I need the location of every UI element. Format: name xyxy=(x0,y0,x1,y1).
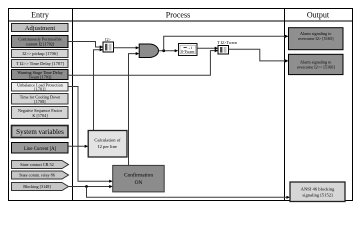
wire Blocking branch down along bottom to ANSI 46 block xyxy=(87,187,288,198)
comparator block T I2-Twarn xyxy=(217,40,238,54)
svg-text:T I2>Twarn: T I2>Twarn xyxy=(217,40,238,45)
svg-text:Confirmation: Confirmation xyxy=(124,172,153,179)
svg-text:ON: ON xyxy=(135,180,143,186)
svg-text:T I2>> Time Delay [1707]: T I2>> Time Delay [1707] xyxy=(16,61,64,66)
svg-text:[1708]: [1708] xyxy=(34,99,46,104)
wire from Continuously Permissible current to comparator I2 input 1 xyxy=(68,42,101,48)
svg-text:State comm. relay 86: State comm. relay 86 xyxy=(19,173,55,178)
block Adjustment xyxy=(12,24,69,33)
block Confirmation ON xyxy=(113,165,165,192)
wire timer output to comparator T I2-Twarn xyxy=(197,47,216,49)
block Time for Cooling Down (1708) xyxy=(12,94,69,105)
svg-text:Blocking [3148]: Blocking [3148] xyxy=(23,184,51,189)
svg-text:Adjustment: Adjustment xyxy=(25,25,56,32)
column divider Process/Output xyxy=(284,9,286,201)
wire Warning Stage Time Delay Twarn to comparator input 2 xyxy=(68,51,216,76)
wire AND output to junction and timer input xyxy=(159,50,176,52)
svg-text:[1701]: [1701] xyxy=(34,87,46,92)
block Calculation of I2 per line xyxy=(88,131,127,158)
wire Line Current to Calculation block xyxy=(68,145,86,147)
input tag Blocking (3148) xyxy=(12,183,69,191)
wire comparator T output to Alarm I2-greater output box 2 xyxy=(229,49,286,61)
block Line Current [A] xyxy=(12,143,69,154)
svg-text:I2>> pickup [1706]: I2>> pickup [1706] xyxy=(22,51,58,56)
block Unbalance Load Protection (1701) xyxy=(12,83,69,92)
svg-text:Entry: Entry xyxy=(31,11,49,20)
svg-text:K [1704]: K [1704] xyxy=(32,113,48,118)
svg-text:signaling [5152]: signaling [5152] xyxy=(302,193,333,198)
block I2 pickup (1706) xyxy=(12,50,69,58)
wire Unbalance Load Protection down to Confirmation input 1 xyxy=(68,87,110,182)
svg-text:Twarn [1703]: Twarn [1703] xyxy=(29,75,52,80)
block T I2 Time Delay (1707) xyxy=(12,60,69,68)
svg-text:Process: Process xyxy=(166,11,190,20)
svg-text:overcome I2> [5165]: overcome I2> [5165] xyxy=(298,36,334,41)
svg-text:Line Current [A]: Line Current [A] xyxy=(24,147,57,152)
svg-text:0-Twarn: 0-Twarn xyxy=(181,49,195,54)
junction node at AND output xyxy=(162,49,165,52)
wire comparator output to AND gate input 1 xyxy=(114,47,137,49)
svg-text:current I2 [1702]: current I2 [1702] xyxy=(26,42,55,47)
svg-text:ANSI 46 blocking: ANSI 46 blocking xyxy=(301,187,335,192)
AND gate xyxy=(139,44,158,58)
wire Confirmation ON up to AND gate input 2 xyxy=(129,54,137,166)
block Negative Sequence Factor K (1704) xyxy=(12,107,69,119)
svg-text:Calculation of: Calculation of xyxy=(94,138,121,143)
block Warning Stage Time Delay Twarn (1703) xyxy=(12,70,69,80)
wire junction up and right to Alarm I2 output box xyxy=(164,36,286,50)
block System variables xyxy=(12,126,69,138)
svg-text:System variables: System variables xyxy=(16,128,64,136)
input tag State comm. relay 86 xyxy=(12,171,69,179)
wire from Calculation of I2 to comparator I2 input 2 xyxy=(94,50,101,131)
svg-text:State contact CB 52: State contact CB 52 xyxy=(20,162,53,167)
timer block t 0-Twarn xyxy=(179,44,198,56)
svg-text:I2 per line: I2 per line xyxy=(98,144,117,149)
header row divider line xyxy=(9,20,353,22)
comparator block I2 threshold xyxy=(103,37,114,52)
input tag State contact CB 52 xyxy=(12,161,69,169)
junction node on Blocking wire xyxy=(85,185,88,188)
output block Alarm signaling overcome I2 (5165) xyxy=(289,28,344,50)
wire Blocking to Confirmation input 2 xyxy=(69,186,111,188)
svg-text:overcome I2>> [5160]: overcome I2>> [5160] xyxy=(297,65,336,70)
svg-text:Output: Output xyxy=(307,11,330,20)
output block ANSI 46 blocking signaling (5152) xyxy=(290,182,345,202)
column divider Entry/Process xyxy=(72,9,74,201)
outer frame xyxy=(9,9,353,201)
svg-text:I2>: I2> xyxy=(105,37,111,42)
block Continuously Permissible current I2 (1702) xyxy=(12,36,69,48)
output block Alarm signaling overcome I2-double (5166) xyxy=(289,54,344,74)
